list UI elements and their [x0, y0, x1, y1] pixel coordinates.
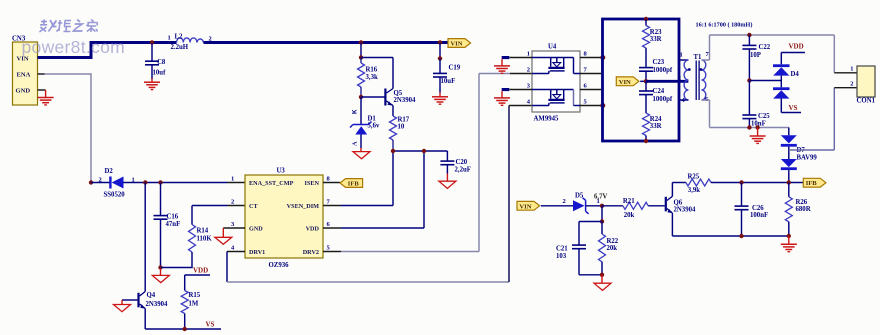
junction bottom rail at ground: [755, 125, 759, 129]
svg-text:1: 1: [231, 176, 234, 183]
svg-text:VIN: VIN: [519, 203, 531, 210]
svg-text:CON1: CON1: [857, 98, 876, 105]
svg-text:2: 2: [678, 75, 681, 82]
net label VS bottom-left: [206, 321, 215, 329]
resistor R22: [599, 222, 619, 275]
junction R16 top: [359, 55, 363, 59]
svg-text:C20: C20: [456, 159, 468, 166]
zener diode D1 5,6v: [350, 97, 380, 148]
junction emitter rail at R26: [787, 234, 791, 238]
ground under C8: [144, 79, 160, 90]
junction IFB rail at C26: [739, 180, 743, 184]
ground under R26: [781, 236, 797, 252]
wire: VIN thick bus from L2 to VIN flag: [204, 41, 449, 44]
svg-text:R26: R26: [796, 199, 808, 206]
ground at U4 pin3: [494, 91, 510, 105]
thick wire VIN node to transformer pin2: [646, 80, 688, 83]
svg-text:VSEN_DIM: VSEN_DIM: [287, 203, 319, 210]
svg-text:1000pf: 1000pf: [653, 96, 673, 103]
svg-text:1: 1: [680, 52, 683, 59]
junction D2 net at C16 branch: [158, 180, 162, 184]
IC U4 AM9945 dual MOSFET: [532, 44, 580, 123]
resistor R14: [161, 206, 213, 268]
junction emitter rail at C26: [739, 234, 743, 238]
svg-text:110K: 110K: [197, 236, 213, 243]
svg-text:GND: GND: [16, 88, 31, 95]
svg-text:C21: C21: [556, 246, 568, 253]
capacitor C24: [639, 81, 673, 113]
svg-text:Q4: Q4: [147, 292, 156, 299]
thick wire loop to transformer: [603, 19, 680, 141]
wire: node to D4 middle: [749, 80, 781, 82]
wire: U4 pin5 to thick loop: [580, 105, 603, 107]
svg-text:47nF: 47nF: [166, 221, 181, 228]
svg-text:1000pf: 1000pf: [653, 67, 673, 74]
junction D2 net at Q4 branch: [143, 180, 147, 184]
svg-text:VDD: VDD: [193, 267, 208, 275]
svg-text:A: A: [352, 141, 359, 146]
wire: bus junction down to C19: [439, 43, 441, 59]
svg-text:VDD: VDD: [306, 226, 320, 233]
capacitor C22: [742, 35, 770, 81]
junction R22 bottom node: [600, 273, 604, 277]
svg-text:33R: 33R: [650, 36, 662, 43]
svg-text:C26: C26: [752, 205, 764, 212]
resistor R25: [672, 174, 803, 194]
junction on bus at R16 branch: [359, 40, 363, 44]
resistor R17: [390, 116, 410, 151]
wire: U3 pin7 VSEN_DIM to rail: [323, 151, 393, 206]
power arrow under C16/R14 node: [152, 268, 169, 283]
dual diode D4: [773, 53, 799, 99]
svg-text:R15: R15: [189, 292, 201, 299]
capacitor C16: [154, 183, 181, 268]
svg-text:2: 2: [850, 80, 853, 87]
junction above C19: [438, 56, 442, 60]
junction top rail at C22: [747, 33, 751, 37]
svg-text:C16: C16: [167, 214, 179, 221]
resistor R26: [785, 183, 810, 237]
svg-text:1M: 1M: [189, 301, 199, 308]
resistor R23: [643, 19, 663, 67]
ground at U4 pin1: [494, 59, 510, 73]
junction loop top at R23: [644, 17, 648, 21]
svg-text:1: 1: [527, 51, 530, 58]
diode D2 SS0520: [91, 168, 135, 199]
resistor R21: [602, 198, 665, 219]
wire: U3 pin5 DRV2 route to U4 pin2: [323, 74, 532, 252]
resistor R15: [181, 275, 201, 329]
svg-text:R24: R24: [650, 116, 662, 123]
svg-text:R23: R23: [650, 29, 662, 36]
svg-text:2: 2: [99, 177, 102, 184]
capacitor C26: [735, 183, 769, 237]
ground at U3 pin3: [215, 228, 232, 244]
svg-text:2: 2: [563, 198, 566, 205]
svg-text:U4: U4: [548, 44, 557, 51]
svg-text:10: 10: [398, 124, 405, 131]
svg-text:D1: D1: [368, 116, 377, 123]
wire: rail to Q5 collector: [361, 57, 393, 59]
svg-text:K: K: [352, 109, 359, 114]
svg-text:C8: C8: [157, 59, 166, 66]
net label VDD bottom-left: [185, 267, 210, 276]
U4 pin3 stub and tie bar: [502, 88, 532, 91]
capacitor C23: [639, 59, 673, 81]
wire: U3 pin4 DRV1 route to U4 pin4: [227, 106, 532, 283]
svg-text:2,2uF: 2,2uF: [455, 167, 471, 174]
junction rail at pin6 branch: [422, 149, 426, 153]
svg-text:R25: R25: [688, 174, 700, 181]
svg-text:2N3904: 2N3904: [674, 206, 697, 213]
power arrow under R22: [594, 275, 611, 291]
wire: U3 pin6 VDD to rail: [323, 151, 424, 228]
junction R16 bottom / Q5 base / D1: [359, 95, 363, 99]
svg-text:5,6v: 5,6v: [368, 123, 380, 130]
wire: rail R17/C20: [393, 150, 447, 152]
svg-text:IFB: IFB: [806, 180, 818, 187]
svg-text:16:1 6:1700 ( 180mH): 16:1 6:1700 ( 180mH): [696, 22, 753, 29]
svg-text:GND: GND: [249, 226, 263, 233]
svg-text:10uf: 10uf: [153, 70, 167, 77]
wire: top output rail to CON1 pin1: [710, 35, 835, 73]
capacitor C21 103: [556, 222, 602, 275]
power arrow at Q4 base: [114, 300, 131, 312]
svg-text:AM9945: AM9945: [534, 116, 560, 123]
net label VDD top-right: [781, 43, 805, 53]
svg-text:C25: C25: [758, 113, 770, 120]
svg-text:680R: 680R: [796, 206, 811, 213]
svg-text:2: 2: [527, 67, 530, 74]
svg-text:100nF: 100nF: [750, 212, 768, 219]
transistor Q5 2N3904: [361, 58, 416, 117]
svg-text:3,9k: 3,9k: [688, 187, 700, 194]
junction C21 top node: [600, 219, 604, 223]
power flag VIN middle: [616, 77, 646, 86]
svg-text:2N3904: 2N3904: [146, 301, 169, 308]
power flag IFB right: [803, 178, 826, 187]
svg-text:R22: R22: [607, 238, 619, 245]
wire: T1 pin7 to top output rail: [702, 35, 710, 60]
svg-text:33R: 33R: [650, 123, 662, 130]
junction ENA wire to D2: [89, 180, 93, 184]
svg-text:1: 1: [850, 66, 853, 73]
wire: U4 pin6 tie to pin5: [580, 90, 602, 106]
junction bottom rail at C25: [747, 125, 751, 129]
svg-text:VDD: VDD: [789, 43, 804, 51]
svg-text:10P: 10P: [750, 52, 761, 59]
power flag IFB at U3: [340, 179, 363, 188]
svg-text:C22: C22: [759, 44, 771, 51]
junction on bus at C8: [150, 40, 154, 44]
svg-text:R16: R16: [366, 67, 378, 74]
svg-text:2.2uH: 2.2uH: [171, 44, 189, 51]
transistor Q4 2N3904: [122, 183, 168, 330]
junction VIN node: [644, 79, 648, 83]
net label VS top-right: [781, 99, 801, 113]
svg-text:C23: C23: [653, 59, 665, 66]
svg-text:CT: CT: [249, 203, 258, 210]
wire: ENA to U4 pin2 gray net start: [38, 74, 92, 183]
svg-text:SS0520: SS0520: [104, 192, 126, 199]
CN3 GND pin stub: [38, 89, 46, 91]
U3 pin8 ISEN stub: [323, 182, 340, 184]
U4 pin numbers: [527, 51, 588, 106]
svg-text:U3: U3: [277, 168, 286, 175]
junction IFB rail at D7/R26: [787, 180, 791, 184]
junction loop bottom at R24: [644, 139, 648, 143]
wire: R14 to U3 pin2 CT: [192, 205, 245, 207]
wire: Q6 emitter rail: [672, 235, 788, 237]
svg-text:ENA: ENA: [17, 72, 31, 79]
svg-text:L2: L2: [175, 34, 184, 41]
capacitor C25: [742, 81, 770, 128]
junction loop at pin8: [600, 55, 605, 60]
transistor Q6 2N3904: [665, 183, 696, 237]
svg-text:DRV1: DRV1: [249, 249, 265, 256]
svg-text:D5: D5: [575, 193, 584, 200]
resistor R16: [358, 58, 378, 98]
power flag VIN top: [448, 39, 471, 48]
svg-text:T1: T1: [694, 54, 703, 61]
svg-text:2: 2: [231, 199, 234, 206]
resistor R24: [643, 113, 663, 141]
capacitor C20: [440, 151, 471, 174]
capacitor C8: [145, 43, 166, 79]
U3 pin numbers: [231, 176, 331, 252]
power arrow under D1 anode: [353, 148, 370, 159]
wire: T1 pin6 to bottom secondary rail: [702, 100, 789, 128]
watermark: site logo text: [22, 20, 125, 58]
capacitor C19: [433, 59, 461, 93]
connector CON1: [834, 66, 875, 105]
svg-text:2N3904: 2N3904: [394, 97, 417, 104]
svg-text:10uF: 10uF: [441, 78, 456, 85]
ground under C19: [432, 93, 448, 105]
svg-text:D2: D2: [105, 168, 114, 175]
wire: C21/R22 branch: [601, 206, 603, 222]
svg-text:VIN: VIN: [619, 79, 631, 86]
svg-text:BAV99: BAV99: [797, 155, 818, 162]
wire: VS rail bottom-left: [145, 328, 221, 330]
U3 pin3 GND stub: [223, 227, 245, 229]
wire: U4 pin8 to thick loop: [580, 57, 603, 59]
ground under CN3 GND pin: [38, 90, 54, 105]
wire: U4 pin7 tie to pin8: [580, 58, 602, 74]
svg-text:D4: D4: [791, 71, 800, 78]
svg-text:DRV2: DRV2: [303, 249, 319, 256]
junction loop at pin5: [600, 103, 605, 108]
zener diode D5 6.7V: [563, 193, 608, 214]
wire: bus to R16/Q5 rail: [360, 43, 362, 58]
junction rail at R17: [391, 149, 395, 153]
svg-text:VIN: VIN: [450, 41, 462, 48]
junction on bus at VIN flag / C19: [438, 40, 442, 44]
svg-text:20k: 20k: [607, 245, 618, 252]
svg-text:R17: R17: [398, 117, 410, 124]
junction D5/R21/R22 node: [600, 204, 604, 208]
power flag VIN bottom: [517, 201, 573, 210]
power arrow under C20: [439, 174, 456, 189]
connector CN3: [12, 36, 38, 106]
svg-text:IFB: IFB: [348, 181, 360, 188]
svg-text:3,3k: 3,3k: [366, 74, 378, 81]
transformer ratio label: [696, 22, 753, 29]
svg-text:1: 1: [597, 198, 600, 205]
svg-text:C24: C24: [653, 88, 665, 95]
dual diode D7 BAV99: [781, 128, 818, 183]
IC U3 OZ936: [245, 168, 323, 270]
svg-text:VS: VS: [789, 104, 798, 112]
svg-text:R14: R14: [197, 228, 209, 235]
svg-text:20k: 20k: [624, 212, 635, 219]
svg-text:ISEN: ISEN: [305, 180, 320, 187]
inductor L2: [168, 34, 212, 52]
mosfet Q-A inside U4 top: [532, 58, 580, 74]
svg-text:C19: C19: [449, 65, 461, 72]
wire: D2 to U3 pin1 ENA_SST_CMP: [124, 182, 246, 184]
wire: VIN thick bus from CN3 to L2: [38, 43, 177, 58]
svg-text:power8t.com: power8t.com: [22, 37, 125, 57]
ground on secondary rail: [750, 128, 766, 144]
junction R15 bottom on VS rail: [183, 327, 187, 331]
svg-text:103: 103: [556, 253, 567, 260]
junction C16/R14 ground node: [158, 265, 162, 269]
svg-text:VS: VS: [206, 321, 215, 329]
wire: D7 middle to CON1 pin2: [789, 88, 835, 150]
transformer T1: [678, 51, 710, 104]
svg-text:R21: R21: [623, 198, 635, 205]
U4 pin1 stub and tie bar: [502, 56, 532, 59]
svg-text:OZ936: OZ936: [269, 262, 290, 269]
junction C22/C25/D4 node: [747, 78, 751, 82]
svg-text:1: 1: [168, 34, 171, 41]
mosfet Q-B inside U4 bottom: [532, 90, 580, 106]
svg-text:ENA_SST_CMP: ENA_SST_CMP: [249, 180, 294, 187]
